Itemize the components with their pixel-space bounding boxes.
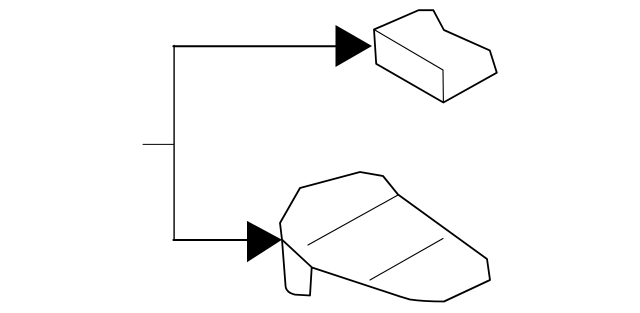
part 2: lower crease line: [370, 239, 443, 281]
part 2: cowl panel outline: [280, 172, 490, 302]
part 1: inner edges: [374, 30, 443, 103]
wire: bottom horizontal leader: [173, 239, 250, 241]
wire: top horizontal leader: [173, 45, 336, 47]
arrowhead 1: [336, 25, 373, 67]
wire: vertical leader line: [173, 45, 175, 240]
part 1: pad bracket outline: [374, 10, 497, 102]
part 2: foot tab: [282, 240, 312, 296]
arrowhead 2: [247, 221, 282, 262]
wire: left tick: [143, 143, 174, 145]
part 2: upper crease line: [308, 195, 398, 245]
